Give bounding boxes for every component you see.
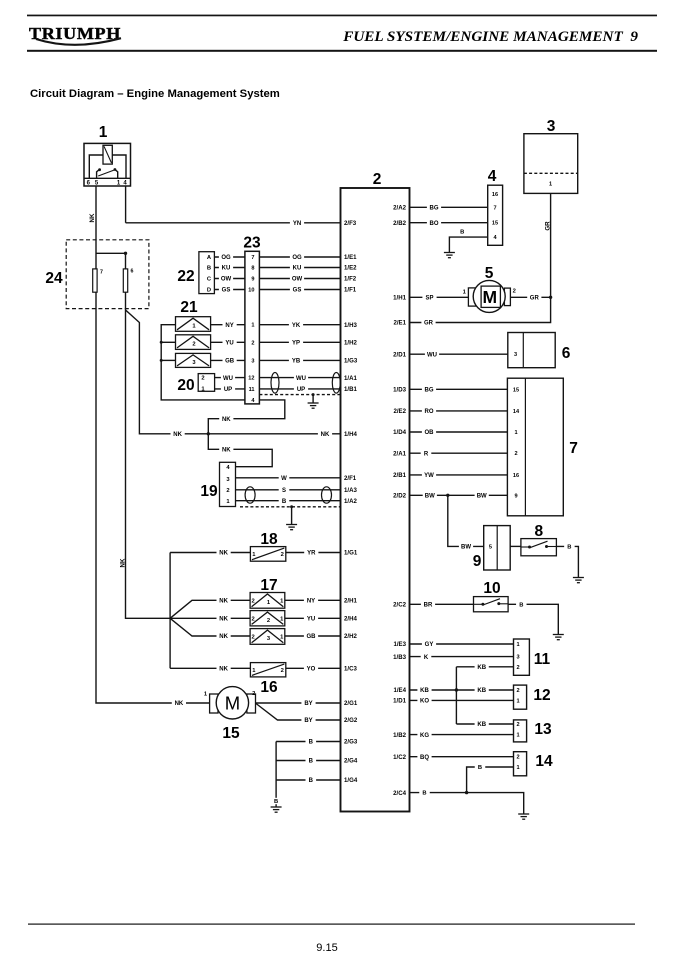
wire YB 23/3 to ECU 1/G3	[259, 359, 340, 361]
wire WU 20/2 to 23/12	[215, 377, 245, 379]
svg-text:1/E2: 1/E2	[344, 265, 357, 272]
svg-text:3: 3	[516, 655, 519, 661]
svg-text:1/C3: 1/C3	[344, 665, 357, 672]
wire B 19/1 to ECU 1/A2	[236, 500, 341, 502]
svg-text:YO: YO	[307, 666, 316, 672]
switch 10 contacts	[474, 603, 482, 605]
svg-text:2/A2: 2/A2	[393, 204, 406, 211]
junction KB	[455, 688, 458, 691]
svg-text:BW: BW	[425, 493, 435, 499]
svg-text:1/G1: 1/G1	[344, 550, 358, 557]
svg-text:1/D3: 1/D3	[393, 386, 406, 393]
sensor 21-3	[176, 353, 211, 367]
wire GR 3 to junction to ECU 2/E1	[410, 193, 551, 322]
switch 8 box	[521, 539, 557, 556]
svg-text:YP: YP	[292, 340, 300, 346]
wire B 4/4 to ground	[449, 237, 487, 252]
svg-text:2/B2: 2/B2	[393, 220, 406, 227]
svg-text:2/H4: 2/H4	[344, 615, 357, 622]
screen grommet	[271, 373, 279, 394]
connector 7 box	[507, 378, 563, 516]
svg-text:15: 15	[492, 221, 498, 227]
svg-text:BG: BG	[425, 387, 434, 393]
screen ground wire	[312, 395, 314, 403]
svg-text:9: 9	[514, 493, 517, 499]
svg-text:1/E3: 1/E3	[393, 641, 406, 648]
wire RO ECU 2/E2 to 7/14	[410, 410, 508, 412]
svg-text:2: 2	[516, 755, 519, 761]
svg-text:GR: GR	[530, 295, 540, 301]
footer rule	[28, 924, 635, 925]
svg-text:22: 22	[177, 268, 194, 285]
wire R ECU 2/A1 to 7/2	[410, 452, 508, 454]
wire UP 23/11 to ECU 1/B1	[259, 388, 340, 390]
svg-text:2: 2	[251, 635, 254, 641]
svg-text:14: 14	[535, 753, 553, 770]
svg-text:10: 10	[483, 580, 500, 597]
svg-text:2/A1: 2/A1	[393, 450, 406, 457]
svg-text:17: 17	[260, 577, 277, 594]
svg-text:KU: KU	[222, 266, 231, 272]
KB bus vertical	[455, 667, 457, 724]
svg-text:NK: NK	[219, 666, 228, 672]
screen ground wire	[291, 507, 293, 525]
svg-text:1/D4: 1/D4	[393, 429, 406, 436]
svg-text:KB: KB	[420, 688, 429, 694]
header top rule	[27, 15, 657, 17]
svg-text:1/G3: 1/G3	[344, 358, 358, 365]
wire NK bus to 18	[170, 552, 250, 554]
motor 5 body	[473, 280, 505, 312]
svg-text:KO: KO	[420, 699, 429, 705]
wire KU 22B to 23/8	[214, 267, 245, 269]
wire NY 21-1 to 23/1	[211, 324, 245, 326]
screen grommet	[332, 373, 340, 394]
junction	[160, 341, 163, 344]
svg-text:2/G2: 2/G2	[344, 717, 358, 724]
B ground bus vertical	[275, 742, 277, 808]
svg-text:1/H1: 1/H1	[393, 294, 406, 301]
wire GB 21-3 to 23/3	[211, 359, 245, 361]
wire BO ECU 2/B2 to 4/15	[410, 222, 488, 224]
svg-text:OB: OB	[425, 430, 435, 436]
svg-text:8: 8	[534, 523, 543, 540]
svg-text:7: 7	[569, 440, 578, 457]
svg-text:NK: NK	[219, 598, 228, 604]
wire SP ECU 1/H1 to motor 5	[410, 296, 469, 298]
svg-text:2/G3: 2/G3	[344, 739, 358, 746]
svg-text:1/F1: 1/F1	[344, 287, 357, 294]
relay K1 box	[84, 143, 131, 186]
wire OG 23/7 to ECU 1/E1	[259, 256, 340, 258]
svg-text:2/E2: 2/E2	[393, 408, 406, 415]
wire S 19/2 to ECU 1/A3	[236, 489, 341, 491]
svg-text:NY: NY	[307, 598, 315, 604]
svg-text:18: 18	[260, 531, 278, 548]
connector 13 box	[514, 720, 527, 742]
junction GR	[549, 296, 552, 299]
svg-text:2: 2	[252, 691, 255, 697]
wire B ECU 2/G3 to ground bus	[276, 741, 340, 743]
svg-text:1: 1	[516, 733, 519, 739]
ground	[553, 635, 564, 640]
svg-text:21: 21	[180, 299, 198, 316]
svg-text:1: 1	[463, 290, 467, 296]
svg-text:BW: BW	[477, 493, 487, 499]
wire GR motor 5 to GR junction	[510, 296, 550, 298]
svg-text:20: 20	[177, 377, 194, 394]
svg-text:B: B	[422, 791, 426, 797]
svg-text:2/C2: 2/C2	[393, 601, 406, 608]
wire W 19/3 to ECU 2/F1	[236, 477, 341, 479]
svg-text:1/G4: 1/G4	[344, 777, 358, 784]
wire B ECU 2/G4 to ground bus	[276, 760, 340, 762]
svg-text:B: B	[309, 740, 314, 746]
fuse F7	[93, 269, 97, 292]
svg-text:W: W	[281, 476, 287, 482]
wire KG ECU 1/B2 to 13/1	[410, 734, 514, 736]
svg-text:GB: GB	[307, 634, 317, 640]
wire GS 23/10 to ECU 1/F1	[259, 289, 340, 291]
svg-text:M: M	[225, 692, 240, 713]
connector 19 box	[220, 462, 236, 506]
svg-text:OW: OW	[292, 277, 303, 283]
wire YR 18/2 to ECU 1/G1	[286, 552, 341, 554]
svg-text:2: 2	[516, 665, 519, 671]
connector 12 box	[514, 685, 527, 709]
svg-text:BY: BY	[304, 718, 312, 724]
svg-text:10: 10	[248, 288, 254, 294]
component 6 box	[508, 333, 555, 368]
wire B to 14/1	[467, 767, 514, 793]
component 20 box	[198, 374, 214, 392]
ground	[286, 525, 297, 530]
switch 8 contacts	[521, 546, 529, 548]
wire BR ECU 2/C2 to switch 10	[410, 603, 474, 605]
svg-text:2: 2	[516, 688, 519, 694]
svg-text:16: 16	[513, 473, 519, 479]
wire OB ECU 1/D4 to 7/1	[410, 431, 508, 433]
wire BQ ECU 1/C2 to 14/2	[410, 756, 514, 758]
junction B	[465, 791, 468, 794]
junction	[290, 505, 293, 508]
svg-text:SP: SP	[425, 295, 433, 301]
wire GS 22D to 23/10	[214, 289, 245, 291]
svg-text:2: 2	[201, 376, 204, 382]
svg-text:B: B	[478, 765, 482, 771]
svg-text:1/A1: 1/A1	[344, 375, 357, 382]
svg-text:B: B	[309, 759, 314, 765]
junction	[312, 393, 315, 396]
svg-text:M: M	[483, 287, 498, 307]
svg-text:2: 2	[373, 171, 382, 188]
svg-text:5: 5	[485, 265, 494, 282]
svg-text:2/F3: 2/F3	[344, 220, 357, 227]
svg-text:YN: YN	[293, 221, 301, 227]
svg-text:BO: BO	[430, 221, 439, 227]
wire BG ECU 1/D3 to 7/15	[410, 388, 508, 390]
svg-text:2/D1: 2/D1	[393, 351, 406, 358]
wire NK fuse 7 to motor 15 pin 1	[96, 292, 210, 703]
ground	[271, 807, 282, 812]
svg-text:2: 2	[192, 342, 195, 348]
header bottom rule	[27, 50, 657, 52]
svg-text:1/B2: 1/B2	[393, 732, 406, 739]
coil 17-2	[250, 611, 285, 626]
svg-text:2/H1: 2/H1	[344, 597, 357, 604]
svg-text:OG: OG	[292, 255, 302, 261]
svg-text:1/A3: 1/A3	[344, 487, 357, 494]
svg-text:UP: UP	[224, 387, 232, 393]
sensor 21-2	[176, 335, 211, 350]
wire KB bus to 13/2	[456, 723, 513, 725]
wire YW ECU 2/B1 to 7/16	[410, 474, 508, 476]
wire GB 17-3 to ECU 2/H2	[285, 635, 341, 637]
svg-text:12: 12	[248, 376, 254, 382]
svg-text:1/A2: 1/A2	[344, 498, 357, 505]
svg-text:1/E1: 1/E1	[344, 254, 357, 261]
svg-text:GS: GS	[293, 288, 302, 294]
svg-text:6: 6	[131, 268, 134, 274]
svg-text:D: D	[207, 288, 211, 294]
svg-text:19: 19	[200, 483, 218, 500]
svg-text:1/B1: 1/B1	[344, 386, 357, 393]
wire OG 22A to 23/7	[214, 256, 245, 258]
svg-text:2: 2	[226, 488, 229, 494]
wire OW 23/9 to ECU 1/F2	[259, 278, 340, 280]
wire YK 23/1 to ECU 1/H3	[259, 324, 340, 326]
svg-text:NK: NK	[120, 558, 127, 567]
NK bus vertical	[169, 553, 171, 669]
wire B ECU 1/G4 to ground bus	[276, 779, 340, 781]
wire OW 22C to 23/9	[214, 278, 245, 280]
svg-text:R: R	[424, 451, 429, 457]
svg-text:2: 2	[251, 598, 254, 604]
wire NK bus to 17-1	[170, 600, 250, 618]
svg-text:YK: YK	[292, 323, 301, 329]
svg-text:1/C2: 1/C2	[393, 754, 406, 761]
svg-text:YB: YB	[292, 359, 301, 365]
svg-text:GR: GR	[424, 321, 434, 327]
wire relay pin4 down	[125, 186, 127, 223]
svg-text:7: 7	[251, 255, 254, 261]
svg-text:2/G4: 2/G4	[344, 758, 358, 765]
screen grommet	[245, 487, 255, 503]
wire link fuse7 feed to fuse 6	[96, 252, 126, 254]
svg-text:GY: GY	[425, 642, 434, 648]
svg-text:2/E1: 2/E1	[393, 320, 406, 327]
motor 5 brackets	[468, 288, 475, 306]
svg-text:GS: GS	[222, 288, 231, 294]
svg-text:1/H2: 1/H2	[344, 339, 357, 346]
svg-text:2/G1: 2/G1	[344, 700, 358, 707]
svg-text:BQ: BQ	[420, 755, 429, 761]
motor 15 body	[216, 687, 248, 719]
wire NK relay pin5 to fuse 7	[95, 186, 97, 269]
svg-text:B: B	[567, 544, 571, 550]
svg-text:YU: YU	[225, 340, 233, 346]
ECU U2 box	[341, 188, 410, 812]
wire BG ECU 2/A2 to 4/7	[410, 206, 488, 208]
wire NK junction up to connector 23 pin 4	[208, 400, 284, 434]
svg-text:2: 2	[514, 451, 517, 457]
wire GY ECU 1/E3 to 11/1	[410, 643, 514, 645]
wire YU 17-2 to ECU 2/H4	[285, 617, 341, 619]
svg-text:15: 15	[513, 387, 519, 393]
svg-text:9: 9	[251, 277, 254, 283]
svg-text:2/D2: 2/D2	[393, 492, 406, 499]
svg-text:1: 1	[99, 124, 108, 141]
svg-text:1: 1	[204, 691, 208, 697]
svg-text:KB: KB	[477, 722, 486, 728]
svg-text:GR: GR	[545, 221, 552, 231]
svg-text:2: 2	[281, 668, 284, 674]
wire YU 21-2 to 23/2	[211, 341, 245, 343]
svg-text:YR: YR	[307, 551, 316, 557]
wire UP 20/1 to 23/11	[215, 388, 245, 390]
svg-text:OW: OW	[221, 277, 232, 283]
sensor 21 common bus	[161, 325, 245, 400]
svg-text:2: 2	[267, 618, 270, 624]
wire YO 16/2 to ECU 1/C3	[286, 667, 341, 669]
fuse F6	[123, 269, 127, 292]
svg-text:WU: WU	[223, 376, 233, 382]
svg-text:24: 24	[45, 270, 63, 287]
svg-text:1: 1	[549, 181, 552, 187]
svg-text:1: 1	[514, 430, 517, 436]
svg-text:KB: KB	[477, 665, 486, 671]
svg-text:BR: BR	[424, 602, 433, 608]
wire YP 23/2 to ECU 1/H2	[259, 341, 340, 343]
wire NK fuse 6 down to NK bus	[126, 292, 171, 618]
ground	[444, 253, 455, 258]
connector 9 box	[484, 526, 511, 570]
svg-text:1: 1	[516, 698, 519, 704]
svg-text:2/H2: 2/H2	[344, 633, 357, 640]
svg-text:1/E4: 1/E4	[393, 687, 406, 694]
ground	[518, 814, 529, 819]
junction NK node	[207, 432, 210, 435]
svg-text:BG: BG	[430, 205, 439, 211]
svg-text:15: 15	[222, 725, 240, 742]
wire BW junction to 9/5	[448, 495, 484, 546]
svg-text:8: 8	[251, 266, 254, 272]
svg-text:YW: YW	[424, 473, 434, 479]
wire NK bus to 16	[170, 667, 250, 669]
svg-text:2: 2	[251, 616, 254, 622]
coil 17-3	[250, 629, 285, 645]
ground	[308, 403, 319, 408]
svg-text:4: 4	[488, 168, 497, 185]
wire KO ECU 1/D1 to 12/1	[410, 699, 514, 701]
svg-text:1/D1: 1/D1	[393, 698, 406, 705]
sensor 21-1	[176, 317, 211, 332]
wire B ECU 2/C4 to ground	[410, 793, 524, 814]
svg-text:NK: NK	[89, 213, 96, 222]
svg-text:11: 11	[249, 387, 255, 393]
wire NK bus to 17-3	[170, 618, 250, 636]
connector 4 strip	[488, 185, 503, 245]
svg-text:B: B	[207, 266, 211, 272]
screen drain wire dashed	[240, 506, 341, 508]
connector 11 box	[514, 639, 530, 675]
svg-text:9.15: 9.15	[316, 942, 337, 954]
svg-text:NK: NK	[175, 701, 184, 707]
svg-text:NY: NY	[225, 323, 233, 329]
svg-text:NK: NK	[321, 432, 330, 438]
svg-text:1/B3: 1/B3	[393, 654, 406, 661]
svg-text:1/H3: 1/H3	[344, 322, 357, 329]
connector 14 box	[514, 752, 527, 776]
wire NK branch to ECU 1/H4	[126, 310, 341, 434]
svg-text:B: B	[282, 499, 287, 505]
component 3 box	[524, 134, 578, 194]
resistor 16	[250, 663, 285, 677]
svg-text:13: 13	[534, 721, 552, 738]
svg-text:1: 1	[251, 323, 254, 329]
svg-text:3: 3	[547, 118, 556, 135]
wire BY motor 15 to ECU 2/G1	[256, 702, 341, 704]
wire KB ECU 1/E4 to 12/2	[410, 689, 514, 691]
switch 10 box	[474, 597, 509, 612]
svg-text:2/C4: 2/C4	[393, 790, 406, 797]
coil 17-1	[250, 593, 285, 609]
svg-text:B: B	[460, 230, 464, 236]
svg-text:WU: WU	[427, 352, 437, 358]
svg-text:B: B	[274, 799, 278, 805]
svg-text:S: S	[282, 488, 286, 494]
connector 22 box	[199, 252, 215, 294]
svg-text:2: 2	[251, 340, 254, 346]
svg-text:12: 12	[533, 687, 550, 704]
svg-text:14: 14	[513, 409, 520, 415]
svg-text:WU: WU	[296, 376, 306, 382]
wire B switch 10 to ground	[508, 604, 558, 634]
wire YN relay to ECU 2/F3	[126, 222, 341, 224]
svg-text:2: 2	[516, 722, 519, 728]
svg-text:3: 3	[251, 358, 254, 364]
svg-text:KU: KU	[293, 266, 302, 272]
wire B switch 8 to ground	[556, 546, 578, 577]
svg-text:7: 7	[100, 269, 103, 275]
svg-text:23: 23	[243, 235, 261, 252]
svg-text:B: B	[309, 778, 314, 784]
junction BW	[446, 494, 449, 497]
svg-text:OG: OG	[221, 255, 231, 261]
wire NK junction down to connector 19 pin 4	[208, 434, 272, 467]
svg-text:NK: NK	[219, 634, 228, 640]
svg-text:Circuit Diagram – Engine Manag: Circuit Diagram – Engine Management Syst…	[30, 88, 280, 100]
wire BW ECU 2/D2 to 7/9	[410, 494, 508, 496]
wire WU ECU 2/D1 to 6/3	[410, 353, 508, 355]
svg-text:2: 2	[281, 552, 284, 558]
resistor 18	[250, 547, 285, 562]
wire K ECU 1/B3 to 11/3	[410, 656, 514, 658]
svg-text:B: B	[519, 602, 523, 608]
svg-text:7: 7	[493, 205, 496, 211]
svg-text:1/F2: 1/F2	[344, 276, 357, 283]
wire NK bus to 17-2	[170, 617, 250, 619]
svg-text:UP: UP	[297, 387, 305, 393]
svg-text:NK: NK	[173, 432, 182, 438]
svg-text:NK: NK	[222, 447, 231, 453]
3 divider dashed	[524, 172, 578, 174]
svg-text:GB: GB	[225, 359, 235, 365]
svg-text:NK: NK	[219, 616, 228, 622]
svg-text:9: 9	[473, 553, 482, 570]
svg-text:16: 16	[260, 679, 278, 696]
wire NY 17-1 to ECU 2/H1	[285, 599, 341, 601]
